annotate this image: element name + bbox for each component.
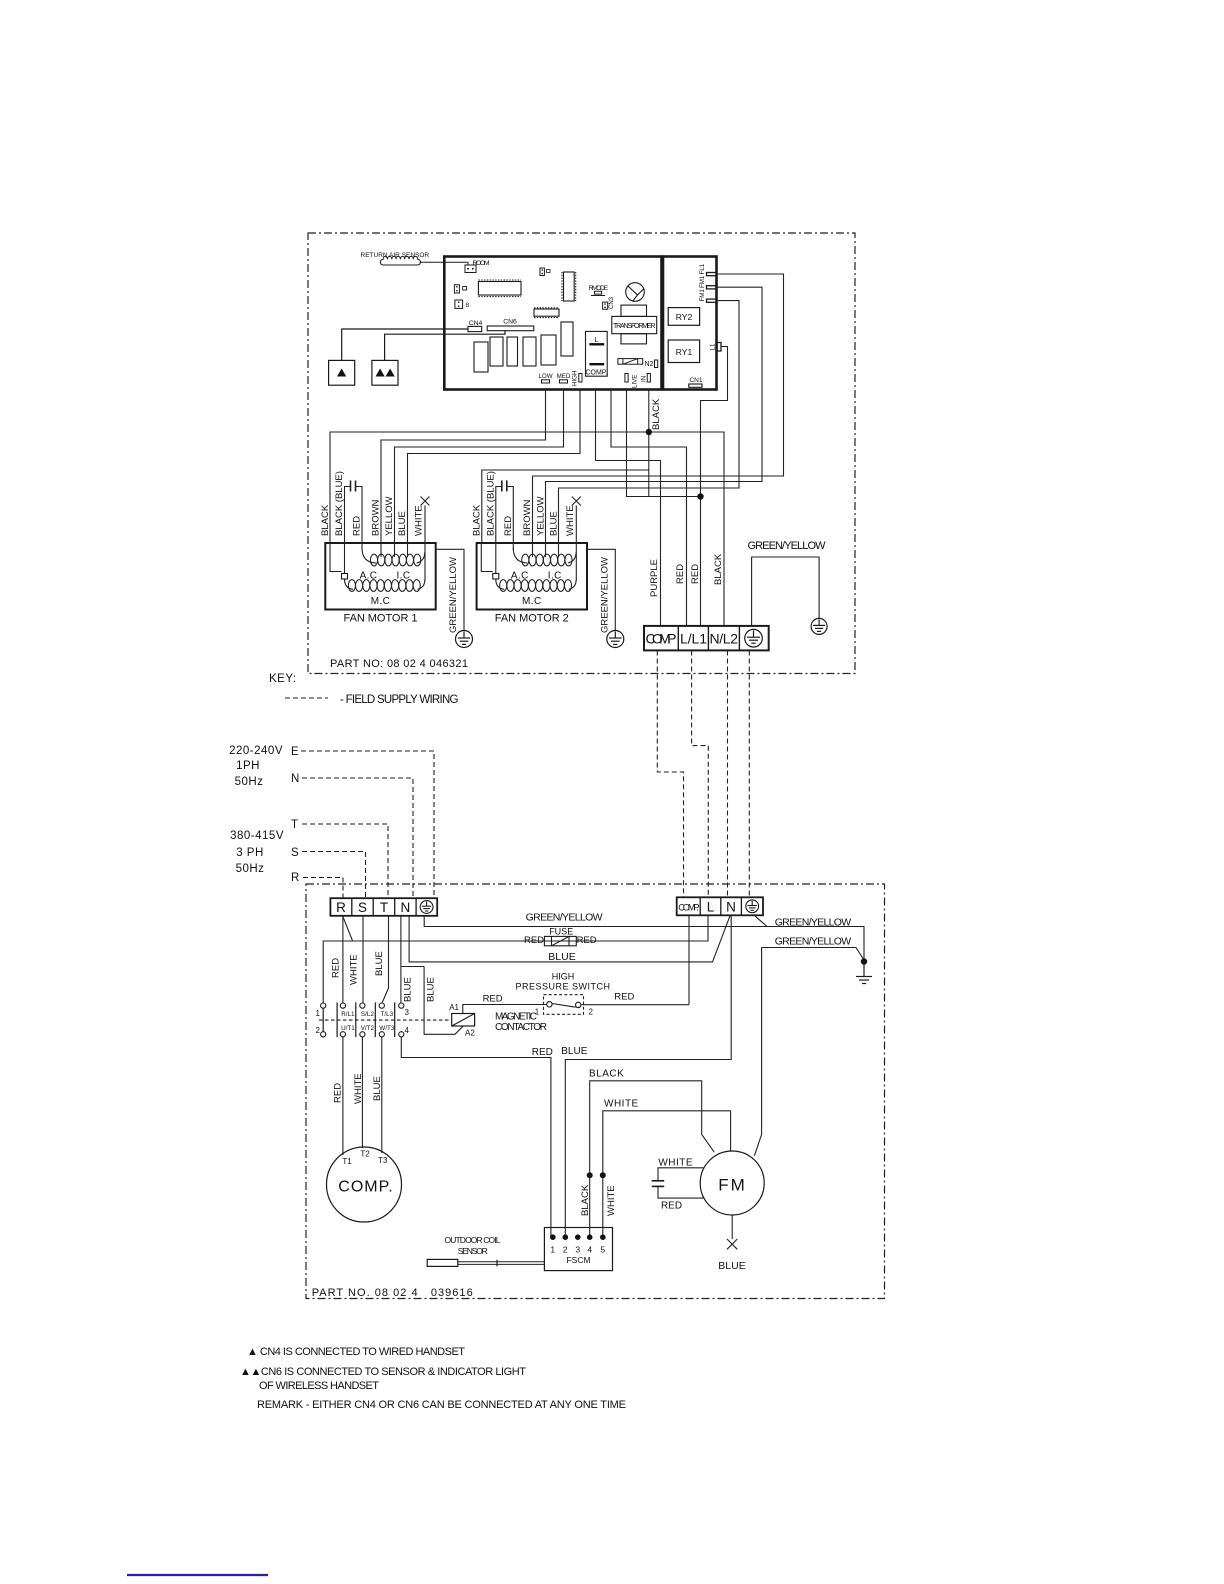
svg-text:WHITE: WHITE — [604, 1099, 639, 1110]
svg-text:1: 1 — [550, 1245, 555, 1255]
svg-text:T: T — [380, 900, 388, 915]
svg-text:WHITE: WHITE — [658, 1158, 693, 1169]
svg-text:IN: IN — [641, 376, 648, 382]
svg-text:HIGH: HIGH — [572, 371, 579, 386]
svg-text:RED: RED — [577, 935, 597, 946]
svg-text:BLACK: BLACK — [651, 398, 662, 430]
svg-text:S: S — [358, 900, 367, 915]
svg-text:4: 4 — [587, 1245, 592, 1255]
svg-text:T2: T2 — [360, 1150, 370, 1159]
svg-text:N2: N2 — [645, 361, 654, 368]
svg-text:R: R — [291, 872, 300, 884]
svg-text:WHITE: WHITE — [349, 954, 360, 985]
svg-text:FSCM: FSCM — [566, 1255, 590, 1265]
svg-text:R: R — [336, 900, 346, 915]
svg-text:FL1: FL1 — [699, 263, 706, 274]
svg-text:2: 2 — [316, 1026, 321, 1035]
svg-text:L: L — [707, 900, 715, 915]
svg-text:E: E — [291, 746, 299, 758]
svg-text:1: 1 — [535, 1008, 540, 1017]
svg-text:CN1: CN1 — [689, 377, 702, 384]
svg-text:MED: MED — [557, 373, 571, 380]
svg-text:W/T3: W/T3 — [379, 1025, 395, 1032]
svg-text:ROOM: ROOM — [473, 260, 490, 267]
svg-text:CONTACTOR: CONTACTOR — [495, 1022, 547, 1033]
svg-text:COMP.: COMP. — [585, 370, 607, 377]
svg-text:COMP: COMP — [646, 631, 677, 647]
svg-text:PART NO: 08 02 4 046321: PART NO: 08 02 4 046321 — [330, 658, 468, 670]
svg-text:MAGNETIC: MAGNETIC — [495, 1012, 537, 1023]
svg-text:WHITE: WHITE — [353, 1073, 364, 1104]
svg-text:N/L2: N/L2 — [710, 631, 739, 647]
svg-text:A2: A2 — [465, 1029, 475, 1038]
svg-text:FM1: FM1 — [699, 275, 706, 288]
svg-text:A1: A1 — [449, 1003, 459, 1012]
svg-text:BLACK: BLACK — [320, 504, 331, 536]
svg-text:V/T2: V/T2 — [361, 1025, 375, 1032]
svg-text:S: S — [291, 847, 299, 859]
svg-text:RED: RED — [332, 1083, 343, 1103]
svg-text:FM1: FM1 — [699, 289, 706, 302]
svg-text:BLACK: BLACK — [713, 553, 724, 585]
svg-text:2: 2 — [589, 1008, 594, 1017]
svg-text:BLACK: BLACK — [589, 1069, 624, 1080]
svg-text:COMP.: COMP. — [338, 1179, 393, 1196]
svg-text:T: T — [291, 819, 299, 831]
svg-text:▲▲CN6 IS CONNECTED TO SENSOR &: ▲▲CN6 IS CONNECTED TO SENSOR & INDICATOR… — [240, 1366, 526, 1378]
svg-text:T3: T3 — [378, 1156, 388, 1165]
svg-text:T/L3: T/L3 — [380, 1011, 393, 1018]
svg-text:1: 1 — [316, 1009, 321, 1018]
svg-text:8: 8 — [466, 302, 470, 309]
svg-text:50Hz: 50Hz — [236, 863, 265, 875]
svg-text:50Hz: 50Hz — [235, 776, 264, 788]
svg-text:RED: RED — [661, 1201, 682, 1212]
svg-text:M.C: M.C — [371, 596, 391, 607]
svg-text:380-415V: 380-415V — [230, 830, 284, 842]
svg-text:BLUE: BLUE — [374, 951, 385, 976]
svg-text:2: 2 — [563, 1245, 568, 1255]
svg-text:OF WIRELESS HANDSET: OF WIRELESS HANDSET — [259, 1380, 379, 1392]
svg-text:CN6: CN6 — [503, 319, 517, 326]
svg-text:R/L1: R/L1 — [341, 1011, 355, 1018]
svg-text:PART NO. 08 02 4 039616: PART NO. 08 02 4 039616 — [312, 1287, 473, 1299]
svg-text:YELLOW: YELLOW — [384, 496, 395, 536]
svg-text:5: 5 — [600, 1245, 605, 1255]
svg-text:L: L — [595, 337, 599, 344]
svg-text:L1: L1 — [710, 343, 717, 350]
svg-text:N: N — [291, 773, 300, 785]
svg-text:3: 3 — [575, 1245, 580, 1255]
svg-text:CN3: CN3 — [609, 296, 615, 309]
svg-text:FAN MOTOR 1: FAN MOTOR 1 — [344, 613, 418, 625]
svg-text:FAN MOTOR 2: FAN MOTOR 2 — [495, 613, 569, 625]
svg-text:BLUE: BLUE — [397, 511, 408, 536]
svg-text:WHITE: WHITE — [414, 505, 425, 536]
svg-text:BLUE: BLUE — [561, 1046, 587, 1057]
svg-text:RY1: RY1 — [676, 347, 693, 357]
svg-text:T1: T1 — [342, 1157, 352, 1166]
svg-text:RED: RED — [483, 994, 503, 1005]
svg-text:3: 3 — [405, 1008, 410, 1017]
svg-text:LOW: LOW — [538, 373, 552, 380]
svg-text:▲ CN4 IS CONNECTED TO WIRED HA: ▲ CN4 IS CONNECTED TO WIRED HANDSET — [247, 1346, 465, 1358]
svg-text:RED: RED — [331, 958, 342, 978]
svg-text:- FIELD SUPPLY WIRING: - FIELD SUPPLY WIRING — [340, 694, 459, 706]
svg-text:3 PH: 3 PH — [236, 847, 264, 859]
svg-text:I.C: I.C — [397, 571, 411, 582]
svg-text:LIVE: LIVE — [632, 375, 639, 388]
svg-text:BLACK (BLUE): BLACK (BLUE) — [334, 471, 345, 536]
svg-text:GREEN/YELLOW: GREEN/YELLOW — [748, 540, 827, 552]
svg-text:GREEN/YELLOW: GREEN/YELLOW — [775, 936, 852, 948]
svg-text:PURPLE: PURPLE — [649, 559, 660, 597]
svg-text:GREEN/YELLOW: GREEN/YELLOW — [526, 912, 603, 924]
svg-text:N: N — [726, 900, 736, 915]
svg-text:N: N — [401, 900, 411, 915]
svg-text:TRANSFORMER: TRANSFORMER — [613, 323, 656, 330]
svg-text:WHITE: WHITE — [606, 1185, 617, 1216]
svg-text:1PH: 1PH — [236, 760, 260, 772]
svg-text:4: 4 — [405, 1026, 410, 1035]
svg-text:RED: RED — [690, 564, 701, 584]
svg-text:HIGH: HIGH — [552, 972, 575, 982]
svg-text:RY2: RY2 — [676, 312, 693, 322]
svg-text:COMP.: COMP. — [678, 903, 699, 913]
svg-text:BLACK: BLACK — [580, 1184, 591, 1216]
svg-text:FM: FM — [718, 1176, 747, 1195]
svg-text:SENSOR: SENSOR — [458, 1246, 488, 1256]
svg-text:PRESSURE SWITCH: PRESSURE SWITCH — [515, 982, 610, 992]
svg-text:BLUE: BLUE — [426, 977, 437, 1002]
svg-text:RED: RED — [352, 516, 363, 536]
svg-text:A.C: A.C — [360, 571, 378, 582]
svg-text:BLUE: BLUE — [548, 951, 575, 963]
svg-text:RED: RED — [524, 935, 544, 946]
svg-text:OUTDOOR COIL: OUTDOOR COIL — [445, 1235, 501, 1245]
svg-text:BLUE: BLUE — [718, 1260, 745, 1272]
svg-text:RETURN AIR SENSOR: RETURN AIR SENSOR — [361, 252, 430, 259]
svg-text:RED: RED — [614, 992, 634, 1003]
svg-text:RED: RED — [532, 1047, 553, 1058]
svg-text:KEY:: KEY: — [269, 673, 297, 685]
svg-text:220-240V: 220-240V — [229, 745, 283, 757]
svg-text:GREEN/YELLOW: GREEN/YELLOW — [448, 557, 459, 633]
svg-text:U/T1: U/T1 — [341, 1025, 355, 1032]
svg-text:S/L2: S/L2 — [361, 1011, 374, 1018]
svg-text:RED: RED — [675, 564, 686, 584]
svg-text:L/L1: L/L1 — [680, 631, 707, 647]
svg-text:FUSE: FUSE — [549, 927, 573, 937]
svg-text:GREEN/YELLOW: GREEN/YELLOW — [775, 917, 852, 929]
svg-text:BLUE: BLUE — [372, 1076, 383, 1101]
svg-text:BLUE: BLUE — [403, 977, 414, 1002]
svg-text:BROWN: BROWN — [371, 499, 382, 536]
svg-text:REMARK - EITHER CN4 OR CN6 CAN: REMARK - EITHER CN4 OR CN6 CAN BE CONNEC… — [257, 1399, 626, 1411]
